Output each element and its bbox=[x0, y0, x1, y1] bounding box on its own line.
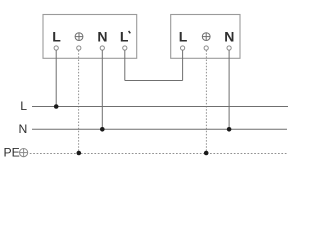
svg-text:N: N bbox=[97, 29, 107, 45]
junction dot X2.N / N bus bbox=[227, 127, 232, 132]
X1 earth symbol (circle with cross) bbox=[75, 33, 83, 41]
junction dot X1.L / L bus bbox=[54, 104, 59, 109]
junction dot X1.N / N bus bbox=[100, 127, 105, 132]
X1 terminal 1 (L) bbox=[54, 46, 58, 50]
X2 earth symbol (circle with cross) bbox=[202, 33, 210, 41]
wire X1.L' down segment bbox=[124, 50, 126, 80]
svg-text:L: L bbox=[20, 99, 27, 113]
connector X1 (left terminal block, lamp/load side) bbox=[43, 15, 137, 59]
wire L' to X2.L horizontal segment bbox=[125, 80, 183, 82]
X1 terminal 3 (N) bbox=[100, 46, 104, 50]
N bus line bbox=[32, 128, 287, 130]
PE bus line (dashed) bbox=[30, 153, 287, 155]
L bus line bbox=[32, 106, 288, 108]
X2 terminal 3 (N) bbox=[227, 46, 231, 50]
svg-text:N: N bbox=[224, 29, 234, 45]
svg-text:L: L bbox=[179, 29, 188, 45]
wire X1.PE to PE bus (dashed) bbox=[78, 50, 80, 153]
svg-text:PE: PE bbox=[4, 145, 20, 159]
X1 terminal 2 (PE) bbox=[77, 46, 81, 50]
svg-text:N: N bbox=[18, 122, 27, 136]
junction dot X1.PE / PE bus bbox=[77, 151, 82, 156]
connector X2 (right terminal block) bbox=[171, 15, 240, 59]
wire X2.L up segment bbox=[182, 50, 184, 80]
wire X1.L to L bus bbox=[55, 50, 57, 106]
wire X2.N to N bus bbox=[228, 50, 230, 129]
X2 terminal 1 (L) bbox=[181, 46, 185, 50]
X2 terminal 2 (PE) bbox=[204, 46, 208, 50]
wire X2.PE to PE bus (dashed) bbox=[205, 50, 207, 153]
svg-text:L: L bbox=[52, 29, 61, 45]
svg-text:L: L bbox=[120, 29, 129, 45]
PE earth symbol (circle with cross) bbox=[20, 149, 28, 157]
wire X1.N to N bus bbox=[101, 50, 103, 129]
X1 terminal 4 (L') bbox=[123, 46, 127, 50]
junction dot X2.PE / PE bus bbox=[204, 151, 209, 156]
